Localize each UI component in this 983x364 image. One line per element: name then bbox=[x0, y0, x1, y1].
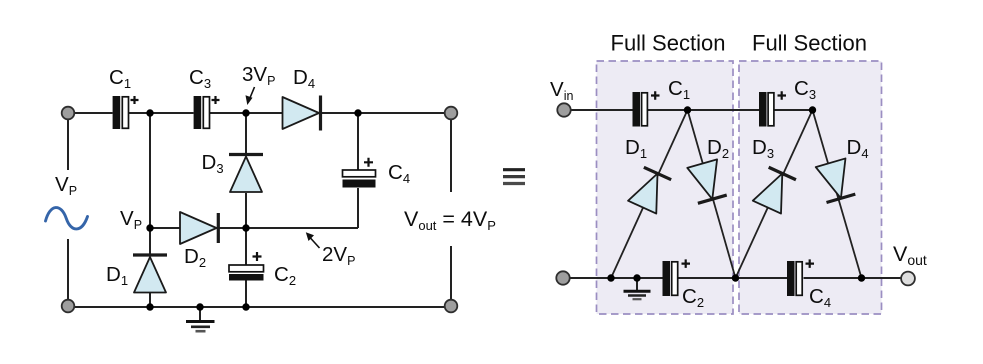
node: junction D4-C4 bbox=[354, 109, 361, 116]
full section box 2 bbox=[739, 61, 882, 314]
wire: vertical branch x150 D1 to bottom rail bbox=[149, 291, 151, 307]
wire: bottom rail C2 to C4 bbox=[678, 277, 787, 279]
wire: top rail Vin to C1 bbox=[564, 109, 633, 111]
node: junction ground tap right bbox=[633, 274, 640, 281]
RIGHT-CIRCUIT bbox=[503, 30, 927, 314]
capacitor C3 bbox=[194, 96, 220, 129]
node: junction C1-right bbox=[146, 109, 153, 116]
wire: mid rail D2 junction to C4 branch bbox=[246, 227, 358, 229]
diode D3 right bbox=[753, 167, 797, 214]
terminal: bottom left bbox=[556, 271, 569, 284]
wire: diagonal D2 branch bbox=[688, 110, 736, 278]
diode D1 bbox=[133, 255, 167, 293]
wire: diagonal D3 branch bbox=[736, 110, 813, 278]
svg-text:D4: D4 bbox=[293, 66, 315, 91]
svg-text:Vin: Vin bbox=[550, 78, 573, 103]
label 2Vp with arrow bbox=[306, 232, 356, 268]
wire: diagonal D1 branch bbox=[611, 110, 688, 278]
svg-text:C3: C3 bbox=[189, 66, 211, 91]
wire: bottom rail bbox=[68, 306, 451, 308]
wire: top rail C3 to node C3 bbox=[774, 109, 813, 111]
svg-text:Full Section: Full Section bbox=[611, 30, 726, 55]
ground symbol left bbox=[186, 307, 215, 331]
capacitor C1 right bbox=[633, 91, 660, 126]
wire: right output lead lower bbox=[450, 246, 452, 300]
wire: vertical branch x246 D3 to mid junction bbox=[245, 193, 247, 265]
terminal: Vin bbox=[557, 103, 570, 116]
ground symbol right bbox=[624, 278, 651, 299]
wire: vertical branch x150 C1 junction to D1 bbox=[149, 113, 151, 255]
wire: top rail C1 to C3 bbox=[648, 109, 759, 111]
wire: vertical branch x246 C2 to bottom rail bbox=[245, 281, 247, 308]
node: junction 3Vp bbox=[242, 109, 249, 116]
terminal: input bottom bbox=[62, 300, 75, 313]
svg-text:C1: C1 bbox=[109, 66, 131, 91]
wire: bottom rail terminal to C2 bbox=[563, 277, 663, 279]
wire: C4 branch lower bbox=[357, 188, 359, 228]
node: junction Vp mid bbox=[146, 224, 153, 231]
capacitor C2 bbox=[229, 252, 264, 281]
svg-text:D2: D2 bbox=[184, 245, 206, 270]
diode D4 bbox=[283, 96, 321, 131]
svg-text:2VP: 2VP bbox=[322, 243, 355, 268]
svg-text:Vout: Vout bbox=[893, 242, 927, 268]
node: junction D1 bottom bbox=[607, 274, 614, 281]
svg-text:3VP: 3VP bbox=[242, 63, 275, 88]
node: junction ground tap bbox=[196, 303, 203, 310]
node: junction D1 bottom bbox=[146, 303, 153, 310]
diode D2 bbox=[180, 212, 218, 244]
wire: diagonal D4 branch bbox=[813, 110, 862, 278]
equivalence symbol bbox=[503, 170, 525, 184]
wire: bottom rail C4 to Vout terminal bbox=[804, 277, 903, 279]
node: junction 2Vp bbox=[242, 224, 249, 231]
sine wave source symbol bbox=[46, 208, 88, 229]
wire: vertical branch x246 C3 junction to D3 bbox=[245, 113, 247, 154]
svg-text:VP: VP bbox=[120, 207, 142, 232]
diode D3 bbox=[229, 155, 263, 193]
node: junction D4 bottom bbox=[858, 274, 865, 281]
node: junction C2 bottom bbox=[242, 303, 249, 310]
wire: top rail segment C3 to top-right terminal bbox=[210, 112, 451, 114]
diode D1 right bbox=[628, 167, 672, 214]
capacitor C3 right bbox=[759, 91, 786, 126]
node: junction C1 top bbox=[684, 106, 691, 113]
svg-text:D3: D3 bbox=[202, 151, 224, 176]
wire: D2 branch left bbox=[150, 227, 180, 229]
capacitor C2 right bbox=[663, 259, 691, 296]
wire: top rail segment C1 to C3 bbox=[129, 112, 194, 114]
LEFT-CIRCUIT bbox=[46, 63, 496, 331]
terminal: output bottom bbox=[445, 300, 458, 313]
svg-text:C4: C4 bbox=[388, 161, 410, 186]
capacitor C4 right bbox=[787, 259, 814, 296]
wire: C4 branch upper bbox=[357, 113, 359, 170]
terminal: input top bbox=[62, 107, 75, 120]
diode D4 right bbox=[816, 158, 856, 202]
capacitor C1 bbox=[113, 96, 139, 129]
terminal: output top bbox=[445, 107, 458, 120]
svg-text:Full Section: Full Section bbox=[752, 30, 867, 55]
svg-text:Vout = 4VP: Vout = 4VP bbox=[404, 207, 496, 233]
full section box 1 bbox=[597, 61, 734, 314]
wire: left source lead upper bbox=[67, 119, 69, 170]
svg-text:C2: C2 bbox=[274, 263, 296, 288]
wire: top rail segment terminal to C1 bbox=[68, 112, 113, 114]
wire: left source lead lower bbox=[67, 239, 69, 301]
label 3Vp with arrow bbox=[242, 63, 275, 105]
terminal: Vout open bbox=[901, 272, 915, 286]
node: junction C3 top bbox=[809, 106, 816, 113]
wire: D2 branch right bbox=[216, 227, 246, 229]
svg-text:D1: D1 bbox=[106, 263, 128, 288]
wire: right output lead upper bbox=[450, 120, 452, 192]
capacitor C4 bbox=[343, 158, 376, 188]
svg-text:VP: VP bbox=[55, 173, 77, 198]
diode D2 right bbox=[687, 159, 727, 203]
node: junction D2-D3 bottom bbox=[732, 274, 739, 281]
